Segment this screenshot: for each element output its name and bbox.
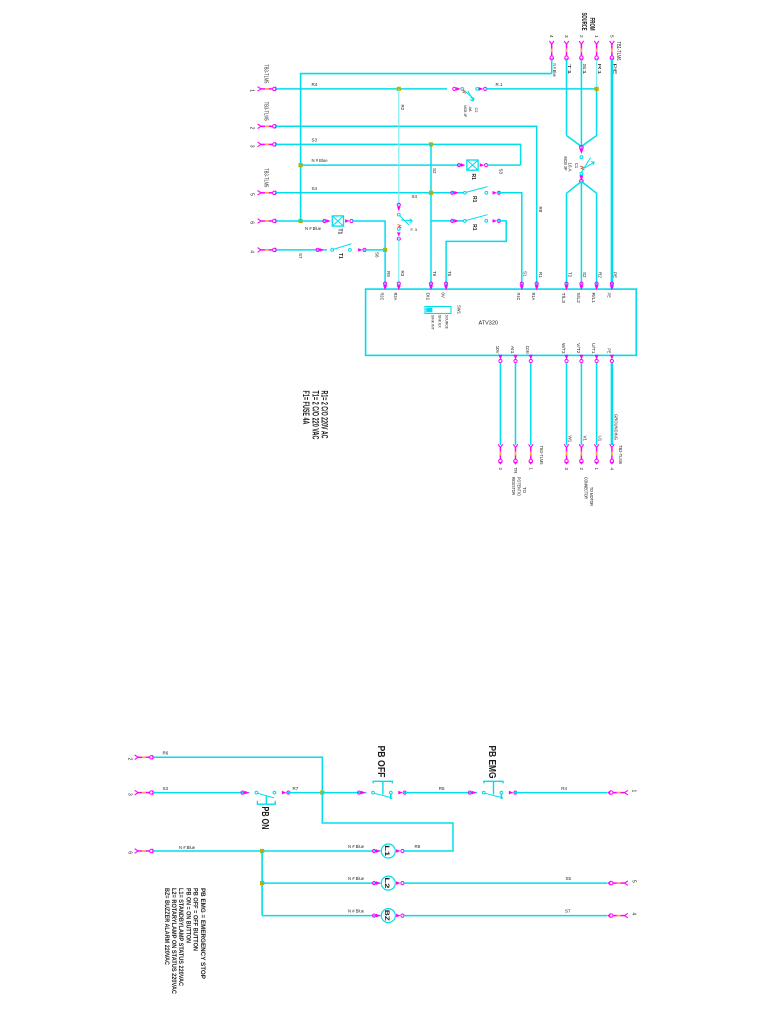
svg-text:5: 5 (631, 880, 637, 883)
svg-text:S7: S7 (565, 909, 571, 914)
svg-text:16 A: 16 A (568, 163, 573, 172)
svg-text:6: 6 (249, 221, 255, 224)
svg-text:S1: S1 (582, 64, 587, 76)
svg-text:BZ: BZ (383, 910, 389, 921)
svg-text:C2: C2 (474, 108, 478, 113)
wire T2 to ATV320 T/L3 (566, 193, 568, 289)
svg-text:N # Blue: N # Blue (179, 845, 196, 850)
wire R5 (403, 792, 477, 794)
svg-text:R2: R2 (400, 105, 405, 111)
svg-text:SINK INT: SINK INT (430, 315, 435, 330)
wire R2 vertical pale (398, 89, 400, 205)
svg-text:L1: L1 (383, 845, 389, 857)
wire R1 to phase tap (486, 88, 597, 90)
wire N # Blue low (153, 850, 380, 852)
svg-text:4A: 4A (468, 107, 472, 112)
svg-text:4: 4 (631, 913, 637, 916)
terminal low-right 1 (608, 790, 628, 795)
svg-text:S2: S2 (432, 168, 437, 174)
svg-text:4: 4 (249, 250, 255, 253)
svg-text:PB EMG = EMERGENCY STOP: PB EMG = EMERGENCY STOP (199, 888, 206, 980)
junction S6 (383, 248, 387, 252)
svg-text:SW1: SW1 (457, 305, 462, 315)
wire R1 down (pale) (596, 60, 598, 89)
svg-text:L2: L2 (383, 877, 389, 889)
svg-text:2: 2 (579, 35, 584, 38)
svg-text:TO MOTOR: TO MOTOR (589, 487, 594, 507)
svg-text:S3: S3 (312, 138, 318, 143)
wire S3 low (153, 792, 249, 794)
svg-text:S3: S3 (163, 786, 169, 791)
wire S5 (403, 882, 608, 884)
svg-text:TB3-TLM5: TB3-TLM5 (262, 64, 268, 83)
svg-text:W1: W1 (568, 436, 573, 443)
wire R7 (287, 792, 323, 794)
svg-text:T2: T2 (567, 272, 572, 278)
wire S1 to R1C (497, 193, 522, 289)
motor wires (566, 363, 568, 445)
ATV320 pin AI1 (514, 355, 518, 360)
svg-text:R7: R7 (293, 786, 299, 791)
ATV320 pin DI1 (429, 282, 432, 285)
ATV320 pin 10V (498, 355, 502, 360)
ATV320 pin PE (610, 282, 613, 285)
MCB Q1 top connector (580, 146, 584, 150)
svg-text:R8: R8 (415, 844, 421, 849)
svg-text:V1: V1 (582, 436, 587, 442)
svg-text:SOURCE: SOURCE (580, 13, 587, 31)
junction phase R tap (595, 87, 599, 91)
MCB Q1 3P converge (567, 136, 582, 147)
wire S2 to ATV320 S/L2 (580, 193, 582, 289)
ATV320 pin W/T3 (565, 355, 569, 360)
potentiometer wires (499, 363, 501, 445)
svg-text:BZ= BUZZER ALARM 220VAC: BZ= BUZZER ALARM 220VAC (163, 888, 170, 965)
MCB Q1 bottom connector (579, 175, 583, 180)
breaker F3 on R2 line (397, 203, 401, 211)
svg-text:TB2-TLM6: TB2-TLM6 (618, 445, 623, 464)
contact R1 no.2 (451, 219, 459, 223)
ATV320 pin PE (610, 355, 614, 360)
svg-text:PB OFF = OFF BUTTON: PB OFF = OFF BUTTON (192, 888, 199, 951)
junction N bus / N row (299, 163, 303, 167)
svg-text:SNK EX: SNK EX (437, 315, 442, 328)
svg-text:FROM: FROM (588, 18, 595, 31)
push button PB EMG (468, 791, 476, 795)
svg-text:W/T3: W/T3 (561, 343, 566, 354)
wire T1 coil to S6 junction (352, 221, 385, 250)
svg-text:N # Blue: N # Blue (312, 158, 329, 163)
svg-text:T/L3: T/L3 (561, 293, 566, 304)
MCB Q1 bottom pin (580, 172, 583, 175)
svg-text:1: 1 (594, 35, 599, 38)
svg-text:POTENTIO: POTENTIO (517, 477, 522, 496)
wire N horizontal + left N bus (301, 74, 552, 221)
junction N bus / T1 coil row (299, 219, 303, 223)
ATV320 pin V/T2 (579, 355, 583, 360)
ATV320 pin S/L2 (580, 282, 583, 285)
svg-text:R1: R1 (470, 174, 476, 181)
svg-text:3: 3 (564, 35, 569, 38)
terminal low-right 4 (608, 913, 628, 918)
MCB Q1 diverge (580, 181, 582, 193)
svg-text:MCB 3P: MCB 3P (563, 157, 568, 171)
svg-text:R1: R1 (538, 272, 543, 278)
svg-text:R.1: R.1 (496, 82, 504, 87)
svg-text:S1: S1 (523, 271, 528, 277)
svg-text:6: 6 (127, 851, 133, 854)
wire R6 (153, 757, 322, 792)
wire N to L2 (262, 882, 380, 884)
wire R1 down to MCB (596, 89, 598, 136)
terminal TB1 4 (549, 41, 554, 61)
wire R4 (276, 88, 447, 90)
relay coil T1 (323, 219, 331, 223)
svg-text:R9: R9 (386, 271, 391, 277)
svg-text:R1: R1 (471, 196, 477, 203)
svg-text:S7: S7 (298, 253, 303, 259)
svg-text:AI1: AI1 (510, 346, 515, 355)
svg-text:PB EMG: PB EMG (486, 746, 497, 779)
svg-text:R3: R3 (400, 271, 405, 277)
ATV320 drive box (366, 289, 637, 355)
svg-text:PE: PE (606, 348, 611, 353)
svg-text:SOURCE: SOURCE (444, 315, 449, 329)
wire R9 to R2C (384, 250, 386, 289)
svg-text:N # Blue: N # Blue (348, 876, 365, 881)
wire R8 from TB3-2 to R1A (276, 126, 537, 289)
svg-text:TO: TO (522, 487, 527, 494)
wire S4 (276, 192, 463, 194)
junction R6/R7 (320, 791, 324, 795)
contact T1 (316, 248, 324, 252)
svg-text:L1= STANDBYLAMP STATUS 220VAC: L1= STANDBYLAMP STATUS 220VAC (177, 888, 184, 986)
terminal pot 1 (529, 444, 534, 464)
svg-text:T6: T6 (432, 271, 437, 277)
svg-text:T1: T1 (337, 229, 343, 235)
terminal motor 3 (564, 444, 569, 464)
wire S6 (363, 249, 385, 251)
junction R4/R2 (397, 87, 401, 91)
svg-text:RESISTOR: RESISTOR (511, 477, 516, 496)
wire T6 to DI1 (430, 193, 432, 289)
svg-text:TB3-TLM5: TB3-TLM5 (262, 102, 268, 121)
svg-text:R/L1: R/L1 (591, 293, 596, 304)
svg-text:2: 2 (249, 127, 255, 130)
ATV320 pin U/T1 (595, 355, 599, 360)
terminal low-right 5 (608, 881, 628, 886)
svg-text:COM: COM (525, 346, 530, 354)
terminal TB3 1 (258, 87, 278, 92)
contact R1 no.1 (451, 191, 459, 195)
junction S4/S2/DI1 (429, 191, 433, 195)
terminal TB3 5 (258, 191, 278, 196)
svg-text:TB3-TLM5: TB3-TLM5 (539, 446, 544, 465)
svg-text:R2A: R2A (393, 293, 398, 301)
svg-text:CONNECTOR: CONNECTOR (584, 477, 589, 500)
svg-text:1: 1 (249, 89, 255, 92)
svg-text:4: 4 (549, 35, 554, 38)
wire N to BZ (262, 915, 380, 917)
wire R3 pale (398, 237, 400, 290)
svg-text:R1C: R1C (516, 293, 521, 301)
wire S3 coil side (487, 164, 521, 166)
svg-text:5: 5 (249, 193, 255, 196)
svg-text:R5: R5 (439, 786, 445, 791)
svg-text:S4: S4 (412, 194, 418, 199)
wire T5 to 0V (446, 221, 506, 289)
svg-text:DI1: DI1 (425, 293, 430, 302)
svg-text:N # Blue: N # Blue (552, 64, 557, 78)
push button PB ON (241, 791, 249, 795)
svg-text:PE: PE (613, 272, 618, 278)
svg-text:3: 3 (249, 145, 255, 148)
svg-text:0V: 0V (441, 293, 446, 298)
junction N L2 (260, 881, 264, 885)
terminal TB1 1 (594, 41, 599, 61)
svg-text:U1: U1 (598, 436, 603, 442)
ATV320 pin R1A (535, 282, 538, 285)
svg-text:N # Blue: N # Blue (348, 844, 365, 849)
svg-text:PB ON = ON BUTTON: PB ON = ON BUTTON (184, 888, 191, 943)
svg-text:N # Blue: N # Blue (348, 909, 365, 914)
svg-text:S6: S6 (375, 252, 380, 258)
terminal TB1 5 (610, 41, 615, 61)
wire T1 down (566, 60, 568, 136)
wire S7 (276, 249, 327, 251)
svg-text:TB1-TLM6: TB1-TLM6 (615, 42, 621, 61)
wire to PB OFF (322, 792, 366, 794)
lamp L1 (373, 849, 381, 853)
svg-text:T1: T1 (337, 253, 343, 259)
wire S1 down (580, 60, 582, 136)
svg-text:R4: R4 (561, 786, 567, 791)
N vertical low (261, 851, 263, 916)
svg-text:PB ON: PB ON (259, 807, 270, 830)
wire S2 vertical (430, 144, 432, 192)
svg-text:S5: S5 (566, 876, 572, 881)
terminal TB3 3 (258, 142, 278, 147)
terminal low-left 3 (135, 790, 155, 795)
svg-text:R4: R4 (312, 82, 318, 87)
wire N down (551, 60, 553, 74)
push button PB OFF (358, 791, 366, 795)
wire to contact R1 no.2 (431, 220, 464, 222)
svg-text:R6: R6 (163, 751, 169, 756)
ATV320 pin R1C (520, 282, 523, 285)
svg-text:R1A: R1A (531, 293, 536, 301)
relay coil R1 (457, 163, 465, 167)
svg-text:S3: S3 (499, 169, 504, 175)
wire S7 low (403, 915, 608, 917)
svg-text:T1: T1 (567, 64, 572, 77)
ATV320 pin R2C (384, 282, 387, 285)
lamp L2 (373, 881, 381, 885)
buzzer BZ (373, 914, 381, 918)
svg-text:T5: T5 (447, 271, 452, 277)
svg-text:R1: R1 (597, 64, 602, 76)
terminal TB1 2 (579, 41, 584, 61)
ATV320 pin 0V (445, 282, 448, 285)
junction N L1 (260, 849, 264, 853)
breaker F1 on R4 line (453, 87, 461, 91)
svg-text:R2C: R2C (380, 293, 385, 301)
wire N # Blue to R1 coil (301, 164, 461, 166)
svg-text:L2= ROTARYLAMP ON STATUS 220VA: L2= ROTARYLAMP ON STATUS 220VAC (170, 888, 177, 994)
svg-text:R1: R1 (471, 224, 477, 231)
svg-text:PB OFF: PB OFF (375, 746, 386, 778)
terminal motor 2 (579, 444, 584, 464)
terminal low-left 6 (135, 849, 155, 854)
terminal low-left 2 (135, 755, 155, 760)
terminal TB3 6 (258, 219, 278, 224)
svg-text:ATV320: ATV320 (479, 321, 498, 327)
svg-text:MCB 1P: MCB 1P (463, 105, 467, 117)
svg-text:N # Blue: N # Blue (305, 226, 322, 231)
svg-text:S/L2: S/L2 (576, 293, 581, 304)
terminal motor 1 (594, 444, 599, 464)
svg-text:TR: TR (513, 468, 518, 475)
svg-text:R2: R2 (597, 272, 602, 278)
ATV320 pin R/L1 (595, 282, 598, 285)
svg-text:10V: 10V (495, 346, 500, 354)
svg-text:C1: C1 (574, 163, 579, 169)
svg-text:S4: S4 (312, 186, 318, 191)
svg-text:1: 1 (631, 790, 637, 793)
svg-text:3: 3 (127, 793, 133, 796)
svg-text:F. 3: F. 3 (411, 227, 418, 232)
wire S3 (276, 144, 520, 165)
svg-text:R8: R8 (538, 207, 543, 213)
svg-text:S2: S2 (582, 272, 587, 278)
svg-text:GROUNDING: GROUNDING (614, 414, 619, 440)
terminal TB3 2 (258, 124, 278, 129)
wire R4 low (514, 792, 608, 794)
wire R2 to ATV320 R/L1 (596, 193, 598, 289)
terminal TB3 4 (258, 248, 278, 253)
MCB Q1 blade + actuator arrow (581, 158, 590, 173)
wire R8 low return (322, 793, 453, 851)
wire N to T1 coil (276, 220, 326, 222)
MCB Q1 top pin (580, 156, 583, 159)
svg-text:V/T2: V/T2 (576, 343, 581, 354)
svg-text:PE: PE (606, 293, 611, 298)
terminal TB1 3 (564, 41, 569, 61)
terminal motor 4 (610, 444, 615, 464)
svg-text:TB3-TLM5: TB3-TLM5 (262, 168, 268, 187)
svg-text:2: 2 (127, 758, 133, 761)
terminal pot 2 (498, 444, 503, 464)
ATV320 pin COM (529, 355, 533, 360)
terminal pot TR (513, 444, 518, 464)
ATV320 pin R2A (397, 282, 400, 285)
ATV320 pin T/L3 (565, 282, 568, 285)
wire PE down to ATV320 (611, 60, 614, 290)
svg-text:U/T1: U/T1 (591, 343, 596, 354)
junction S3/S2 (429, 142, 433, 146)
svg-text:5: 5 (609, 35, 614, 38)
SW1 switch (425, 307, 451, 314)
svg-text:F1= FUSE 4A: F1= FUSE 4A (301, 391, 311, 425)
